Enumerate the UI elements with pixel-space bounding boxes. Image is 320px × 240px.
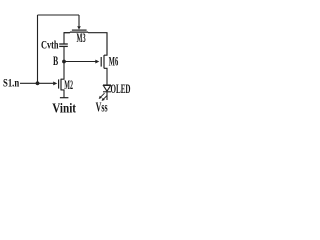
node B junction dot — [62, 60, 66, 64]
svg-text:Vinit: Vinit — [52, 100, 76, 115]
wire left vertical from top rail to S1.n node — [37, 15, 39, 83]
svg-text:B: B — [53, 54, 58, 68]
svg-text:OLED: OLED — [111, 82, 131, 96]
wire node B down to M2 drain — [61, 62, 64, 80]
wire S1.n horizontal to M2 gate — [20, 82, 53, 84]
svg-text:M2: M2 — [64, 78, 73, 92]
wire M2 source down to Vinit terminal — [61, 90, 64, 98]
capacitor Cvth — [59, 44, 68, 46]
wire capacitor bottom to node B — [63, 46, 65, 61]
svg-text:Vss: Vss — [96, 100, 108, 115]
wire OLED cathode down to Vss — [106, 92, 108, 100]
svg-text:Cvth: Cvth — [41, 39, 59, 51]
Vinit terminal bar — [60, 97, 69, 99]
diode OLED — [103, 85, 111, 92]
svg-text:S1.n: S1.n — [3, 78, 20, 90]
transistor M3 — [64, 15, 88, 33]
wire top rail S1.n to M3 gate — [38, 14, 80, 16]
transistor M2 — [53, 79, 61, 91]
OLED emission arrow 2 — [102, 95, 108, 101]
wire M3 drain to M6 drain — [88, 33, 107, 56]
node S1.n junction dot — [36, 81, 40, 85]
wire capacitor top to M3 source — [64, 33, 70, 44]
wire M6 source down to OLED anode — [104, 68, 107, 85]
transistor M6 — [95, 33, 107, 69]
svg-text:M6: M6 — [109, 54, 118, 68]
OLED emission arrow 1 — [99, 93, 105, 99]
wire node B to M6 gate — [64, 61, 96, 63]
svg-text:M3: M3 — [77, 31, 86, 45]
